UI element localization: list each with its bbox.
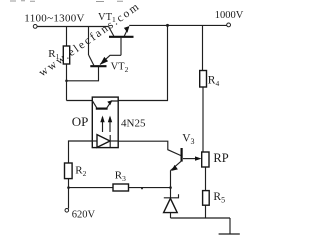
resistor R3: [113, 184, 129, 191]
wire R4 to RP: [202, 87, 204, 152]
stray page-edge marks: [10, 0, 123, 3]
wire top-left input rail: [37, 26, 109, 28]
wire junction to VT2 base: [67, 67, 99, 81]
resistor R2: [65, 163, 73, 179]
svg-text:R2: R2: [75, 165, 86, 178]
wire rail down to R4: [202, 25, 204, 70]
wire V3 emitter down: [170, 171, 172, 198]
wire bottom rail: [171, 217, 231, 219]
terminal 1000V: [227, 23, 231, 27]
svg-text:1100~1300V: 1100~1300V: [24, 12, 85, 24]
wire R1 bottom: [66, 64, 68, 101]
light arrows of U1: [100, 116, 112, 133]
node R2-R3 junction: [67, 186, 70, 189]
svg-text:4N25: 4N25: [121, 117, 146, 129]
node R3-zener junction: [169, 186, 172, 189]
resistor R5: [203, 191, 210, 206]
terminal 620V: [65, 209, 69, 213]
ground: [219, 218, 240, 234]
wire RP to R5: [205, 167, 207, 190]
wire R2 node to R3: [69, 187, 114, 189]
wire rail drop to VT2 collector: [88, 27, 90, 56]
zener diode: [164, 194, 179, 218]
wire R3 to zener node: [129, 187, 171, 189]
wire LED anode to R2 node: [69, 141, 93, 163]
svg-text:R5: R5: [213, 191, 225, 205]
wire LED cathode to V3 base: [118, 141, 181, 155]
transistor VT1: [98, 12, 134, 56]
wire output rail: [129, 24, 227, 26]
svg-text:OP: OP: [72, 114, 89, 129]
wire R5 to bottom rail: [205, 205, 207, 218]
wire rail to R1: [66, 27, 68, 46]
svg-text:VT2: VT2: [111, 62, 129, 74]
LED of U1: [92, 135, 118, 148]
svg-text:RP: RP: [213, 151, 228, 165]
resistor R4: [200, 71, 207, 88]
wire rail down to optocoupler collector: [118, 25, 167, 100]
svg-text:620V: 620V: [72, 209, 96, 220]
wire R2 bottom to 620V: [68, 179, 70, 209]
wire junction to optocoupler: [67, 100, 93, 102]
potentiometer RP: [202, 151, 229, 167]
transistor VT2: [89, 55, 129, 74]
watermark: [37, 0, 143, 79]
terminal 1100~1300V: [33, 25, 37, 29]
svg-text:R3: R3: [115, 169, 126, 182]
node stray dot on wire: [141, 187, 143, 189]
svg-text:R4: R4: [208, 75, 220, 88]
transistor V3: [171, 133, 202, 171]
optocoupler U1 4N25 box: [92, 97, 118, 148]
node R1-VT2 base junction: [65, 80, 68, 83]
node rail-optocoupler junction: [166, 24, 169, 27]
phototransistor of U1: [93, 100, 119, 108]
resistor R1: [63, 46, 69, 64]
svg-text:V3: V3: [182, 133, 194, 147]
svg-text:1000V: 1000V: [215, 10, 244, 21]
